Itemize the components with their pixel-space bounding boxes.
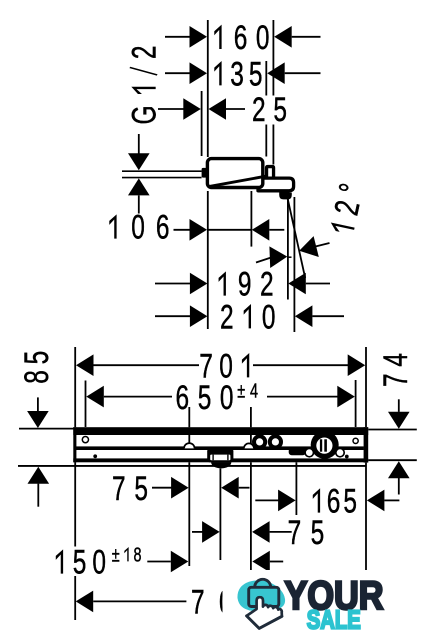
svg-text:4: 4: [377, 353, 415, 367]
svg-text:0: 0: [131, 209, 145, 247]
svg-text:5: 5: [134, 470, 148, 508]
svg-text:5: 5: [311, 514, 325, 552]
svg-text:5: 5: [73, 544, 87, 582]
svg-text:9: 9: [238, 266, 252, 304]
svg-text:8: 8: [18, 370, 56, 384]
svg-text:5: 5: [198, 379, 212, 417]
svg-text:7: 7: [191, 584, 205, 622]
svg-text:5: 5: [343, 483, 357, 521]
svg-text:2: 2: [126, 46, 164, 60]
svg-text:4: 4: [250, 379, 258, 402]
svg-text:SALE: SALE: [307, 605, 361, 635]
svg-text:2: 2: [252, 91, 266, 129]
svg-text:5: 5: [249, 56, 263, 94]
svg-text:0: 0: [256, 19, 270, 57]
svg-text:G: G: [126, 105, 164, 124]
svg-text:7: 7: [112, 470, 126, 508]
svg-text:7: 7: [377, 373, 415, 387]
svg-text:5: 5: [18, 351, 56, 365]
svg-text:6: 6: [234, 19, 248, 57]
svg-text:8: 8: [133, 543, 141, 566]
svg-text:0: 0: [262, 299, 276, 337]
svg-text:6: 6: [175, 379, 189, 417]
svg-text:0: 0: [220, 379, 234, 417]
svg-text:0: 0: [92, 544, 106, 582]
svg-text:±: ±: [112, 543, 120, 566]
svg-text:2: 2: [220, 299, 234, 337]
svg-text:6: 6: [327, 483, 341, 521]
svg-text:6: 6: [156, 209, 170, 247]
svg-text:7: 7: [288, 514, 302, 552]
svg-text:3: 3: [230, 56, 244, 94]
svg-text:±: ±: [237, 379, 245, 402]
svg-text:5: 5: [273, 91, 287, 129]
